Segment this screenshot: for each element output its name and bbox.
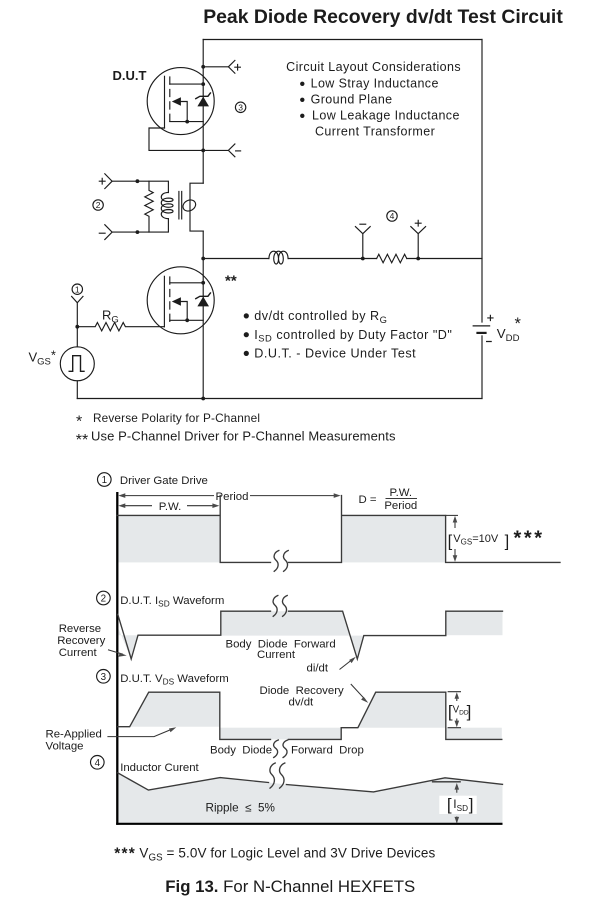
axis wf4 bottom: [116, 823, 502, 825]
label - sign: [236, 150, 241, 152]
dimension ISD: [432, 782, 477, 824]
wire primary bottom: [112, 219, 168, 232]
svg-text:Period: Period: [384, 500, 417, 512]
node 2 circled wf: [97, 591, 111, 605]
svg-text:2: 2: [96, 200, 101, 210]
waveform 2 trace: [118, 611, 503, 659]
svg-text:[: [: [447, 795, 452, 814]
svg-text:3: 3: [238, 102, 243, 112]
svg-text:Ripple ≤ 5%: Ripple ≤ 5%: [206, 802, 275, 815]
svg-text:Inductor Curent: Inductor Curent: [120, 762, 199, 774]
svg-text:Voltage: Voltage: [46, 741, 84, 753]
svg-text:Driver Gate Drive: Driver Gate Drive: [120, 475, 208, 487]
waveform 3 gray trapezoid 1: [130, 692, 220, 727]
svg-text:4: 4: [390, 211, 395, 221]
node - terminal: [201, 149, 205, 153]
svg-text:2: 2: [101, 594, 106, 605]
terminal chevron plus: [105, 174, 112, 189]
source VGS pulse generator: [60, 327, 94, 399]
dimension period: [118, 491, 340, 503]
formula D = PW/Period: [359, 487, 418, 512]
svg-text:Recovery: Recovery: [57, 635, 105, 647]
svg-text:D =: D =: [359, 494, 377, 506]
svg-text:]: ]: [505, 532, 510, 550]
node 3 circled wf: [97, 670, 111, 684]
node probe minus: [361, 257, 365, 261]
core lines: [179, 191, 182, 219]
inductor load: [269, 251, 288, 264]
label body diode forward current: [226, 639, 336, 661]
svg-text:**: **: [225, 273, 237, 290]
svg-text:1: 1: [75, 284, 80, 294]
node 3 circled: [235, 102, 245, 112]
waveform 1 trace: [117, 496, 560, 563]
arrow re-applied: [107, 727, 176, 736]
node drain Q1: [201, 82, 205, 86]
svg-text:**: **: [76, 432, 88, 449]
svg-text:P.W.: P.W.: [390, 487, 413, 499]
svg-text:]: ]: [467, 702, 472, 721]
svg-text:Reverse: Reverse: [59, 623, 101, 635]
wire right edge upper: [481, 40, 483, 323]
node gate RG: [75, 325, 79, 329]
waveform 3 gray body diode band: [220, 728, 341, 740]
probe plus: [411, 220, 426, 258]
svg-text:Low Leakage Inductance: Low Leakage Inductance: [312, 109, 460, 123]
waveform 2 gray recovery spike left: [118, 629, 138, 660]
svg-text:Diode Recovery: Diode Recovery: [260, 685, 345, 697]
svg-text:***: ***: [514, 528, 545, 550]
svg-text:D.U.T. VDS Waveform: D.U.T. VDS Waveform: [120, 673, 229, 687]
svg-text:Body Diode: Body Diode: [210, 745, 272, 757]
wire - terminal: [203, 149, 228, 151]
wire right edge lower: [481, 336, 483, 399]
wire bottom edge: [77, 398, 482, 400]
node 2 circled: [93, 200, 103, 210]
node 4 circled: [387, 211, 397, 221]
node source stub Q2: [185, 318, 189, 322]
waveform 2 gray body diode block: [221, 611, 364, 659]
svg-text:1: 1: [102, 475, 107, 486]
svg-text:4: 4: [95, 758, 101, 769]
svg-text:D.U.T: D.U.T: [113, 68, 147, 83]
battery VDD: [473, 315, 522, 344]
waveform 3 gray right band: [446, 728, 502, 740]
svg-text:Circuit Layout Considerations: Circuit Layout Considerations: [286, 60, 461, 74]
squiggle wf4: [270, 763, 285, 788]
label minus sign: [99, 232, 105, 234]
svg-text:Current: Current: [59, 647, 98, 659]
node primary top: [136, 179, 140, 183]
resistor damping: [145, 181, 153, 232]
dimension PW: [118, 501, 219, 513]
wire primary top: [112, 181, 168, 192]
node 4 circled wf: [91, 756, 105, 770]
svg-text:Current Transformer: Current Transformer: [315, 124, 435, 138]
probe 1 circled: [72, 284, 83, 327]
resistor load: [377, 254, 407, 262]
node 1 circled wf: [98, 473, 112, 487]
waveform 1 gray pulse 1: [117, 515, 220, 562]
svg-text:[: [: [448, 532, 453, 550]
svg-text:ISD controlled by Duty Factor: ISD controlled by Duty Factor "D": [254, 328, 452, 344]
label body diode forward drop: [210, 745, 364, 757]
svg-text:P.W.: P.W.: [159, 501, 182, 513]
label diode recovery dv/dt: [260, 685, 345, 709]
node primary bottom: [136, 230, 140, 234]
wire load branch: [203, 258, 482, 260]
svg-text:]: ]: [469, 795, 474, 814]
node bottom bus: [201, 397, 205, 401]
resistor RG: [77, 323, 164, 331]
waveform 4 gray area: [118, 773, 503, 824]
svg-text:D.U.T. - Device Under Test: D.U.T. - Device Under Test: [254, 347, 416, 361]
svg-text:Re-Applied: Re-Applied: [46, 729, 102, 741]
waveform 3 gray trapezoid 2: [358, 692, 446, 728]
node probe plus: [416, 257, 420, 261]
svg-text:*: *: [76, 413, 82, 430]
squiggle wf1: [274, 551, 288, 572]
arrow diode recovery: [351, 684, 369, 703]
transistor Q2 driver: [147, 267, 214, 334]
dimension VDD: [448, 692, 472, 728]
arrow reverse recovery: [108, 650, 127, 657]
svg-text:Use P-Channel Driver for P-Cha: Use P-Channel Driver for P-Channel Measu…: [91, 429, 396, 444]
wire top edge: [203, 39, 482, 41]
svg-text:Fig 13. For N-Channel HEXFETS: Fig 13. For N-Channel HEXFETS: [165, 877, 415, 896]
svg-text:dv/dt: dv/dt: [289, 697, 315, 709]
axis waveforms: [116, 492, 118, 825]
node + terminal: [201, 65, 205, 69]
transistor Q1 D.U.T.: [147, 68, 214, 135]
inductor secondary single turn: [181, 198, 198, 213]
terminal chevron -: [228, 144, 235, 157]
node inductor branch: [201, 257, 205, 261]
svg-text:Reverse Polarity for P-Channel: Reverse Polarity for P-Channel: [93, 411, 260, 425]
node source stub Q1: [185, 120, 189, 124]
svg-text:Ground Plane: Ground Plane: [311, 93, 393, 107]
text bullets dv/dt: [244, 309, 453, 361]
svg-text:Forward Drop: Forward Drop: [291, 745, 364, 757]
terminal chevron minus: [105, 225, 112, 240]
transformer T1: [99, 174, 203, 240]
wire main vertical bus: [202, 40, 204, 399]
svg-text:dv/dt controlled by RG: dv/dt controlled by RG: [254, 309, 387, 325]
wire secondary jog top: [190, 183, 203, 231]
svg-text:3: 3: [101, 672, 107, 683]
label + sign: [235, 64, 241, 70]
waveform 2 gray right block: [446, 611, 503, 635]
wire gate-source short Q1: [149, 128, 203, 150]
label reverse recovery current: [57, 623, 105, 659]
svg-text:di/dt: di/dt: [307, 663, 329, 675]
terminal chevron +: [228, 60, 235, 73]
probe minus: [355, 224, 370, 258]
svg-text:Low Stray Inductance: Low Stray Inductance: [311, 77, 439, 91]
dimension VGS level: [446, 515, 545, 562]
svg-text:Peak Diode Recovery dv/dt Test: Peak Diode Recovery dv/dt Test Circuit: [203, 6, 563, 28]
wire + terminal: [203, 66, 228, 68]
svg-text:VGS=10V: VGS=10V: [453, 533, 499, 547]
squiggle wf2: [273, 596, 287, 617]
svg-text:D.U.T. ISD Waveform: D.U.T. ISD Waveform: [120, 595, 224, 609]
waveform 1 gray pulse 2: [342, 515, 446, 562]
label plus sign: [99, 178, 105, 184]
svg-text:Current: Current: [257, 649, 296, 661]
arrow di/dt: [340, 657, 356, 670]
squiggle wf3: [274, 740, 288, 758]
waveform 4 trace: [118, 773, 503, 792]
text circuit layout considerations: [286, 60, 461, 138]
node drain Q2: [201, 281, 205, 285]
svg-text:*: *: [515, 315, 522, 333]
inductor primary winding: [161, 192, 173, 218]
label re-applied voltage: [46, 729, 102, 753]
waveform 3 trace: [118, 692, 502, 739]
